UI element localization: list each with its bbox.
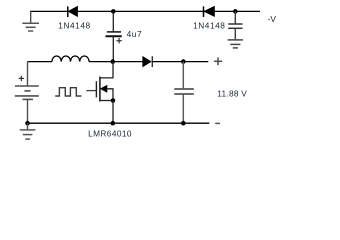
wire N2 to D2 [113, 61, 143, 63]
wire source to bottom rail [112, 101, 114, 124]
node N1 [111, 9, 116, 14]
ground GND2 [20, 130, 36, 139]
wire bottom-left ground stub [27, 123, 29, 129]
node N6 [25, 121, 30, 126]
node N5 (source/body tie) [111, 98, 116, 103]
node N4 [233, 9, 238, 14]
node N2 [111, 59, 116, 64]
svg-text:11.88 V: 11.88 V [217, 88, 247, 98]
label + (output positive) [214, 57, 222, 65]
wire D2 to N3 [152, 61, 183, 63]
label - (output negative) [215, 122, 220, 124]
diode D3 1N4148 (top right) [204, 6, 215, 17]
wire gate lead [86, 90, 96, 92]
node N3 [181, 59, 186, 64]
capacitor C3 [228, 24, 242, 28]
svg-text:1N4148: 1N4148 [193, 21, 225, 31]
wire top rail [30, 10, 260, 12]
wire C1 to mid rail [112, 36, 114, 61]
svg-text:1N4148: 1N4148 [58, 21, 90, 31]
svg-text:4u7: 4u7 [127, 29, 143, 39]
wire battery top [27, 62, 29, 86]
svg-text:-V: -V [268, 14, 277, 24]
wire N4 to C3 [234, 11, 236, 23]
wire N3 to + terminal [183, 61, 208, 63]
node N8 [181, 121, 186, 126]
wire bottom rail [28, 122, 210, 124]
wire C3 to ground [234, 28, 236, 39]
ground GND1 [22, 23, 39, 31]
capacitor C1 4u7 [106, 32, 122, 36]
diode D2 [143, 56, 153, 67]
wire mid rail inductor to N2 [89, 61, 113, 63]
wire N3 to C2 [182, 62, 184, 89]
wire C2 to bottom rail [182, 94, 184, 123]
capacitor C2 [174, 89, 194, 94]
wire top-left ground stub [30, 11, 32, 23]
inductor L1 [52, 56, 89, 62]
square wave gate drive [55, 88, 81, 96]
label + (C1 polarity) [116, 38, 121, 43]
label + (battery polarity) [19, 76, 25, 81]
svg-text:LMR64010: LMR64010 [88, 129, 132, 139]
wire mid rail left segment [28, 61, 53, 63]
wire N1 to C1 [112, 11, 114, 31]
transistor Q1 (internal NMOS) [96, 62, 113, 102]
wire battery bottom [27, 99, 29, 123]
node N7 [111, 121, 116, 126]
ground GND3 [228, 40, 243, 48]
diode D1 1N4148 [68, 6, 78, 17]
battery BT1 [15, 86, 39, 99]
